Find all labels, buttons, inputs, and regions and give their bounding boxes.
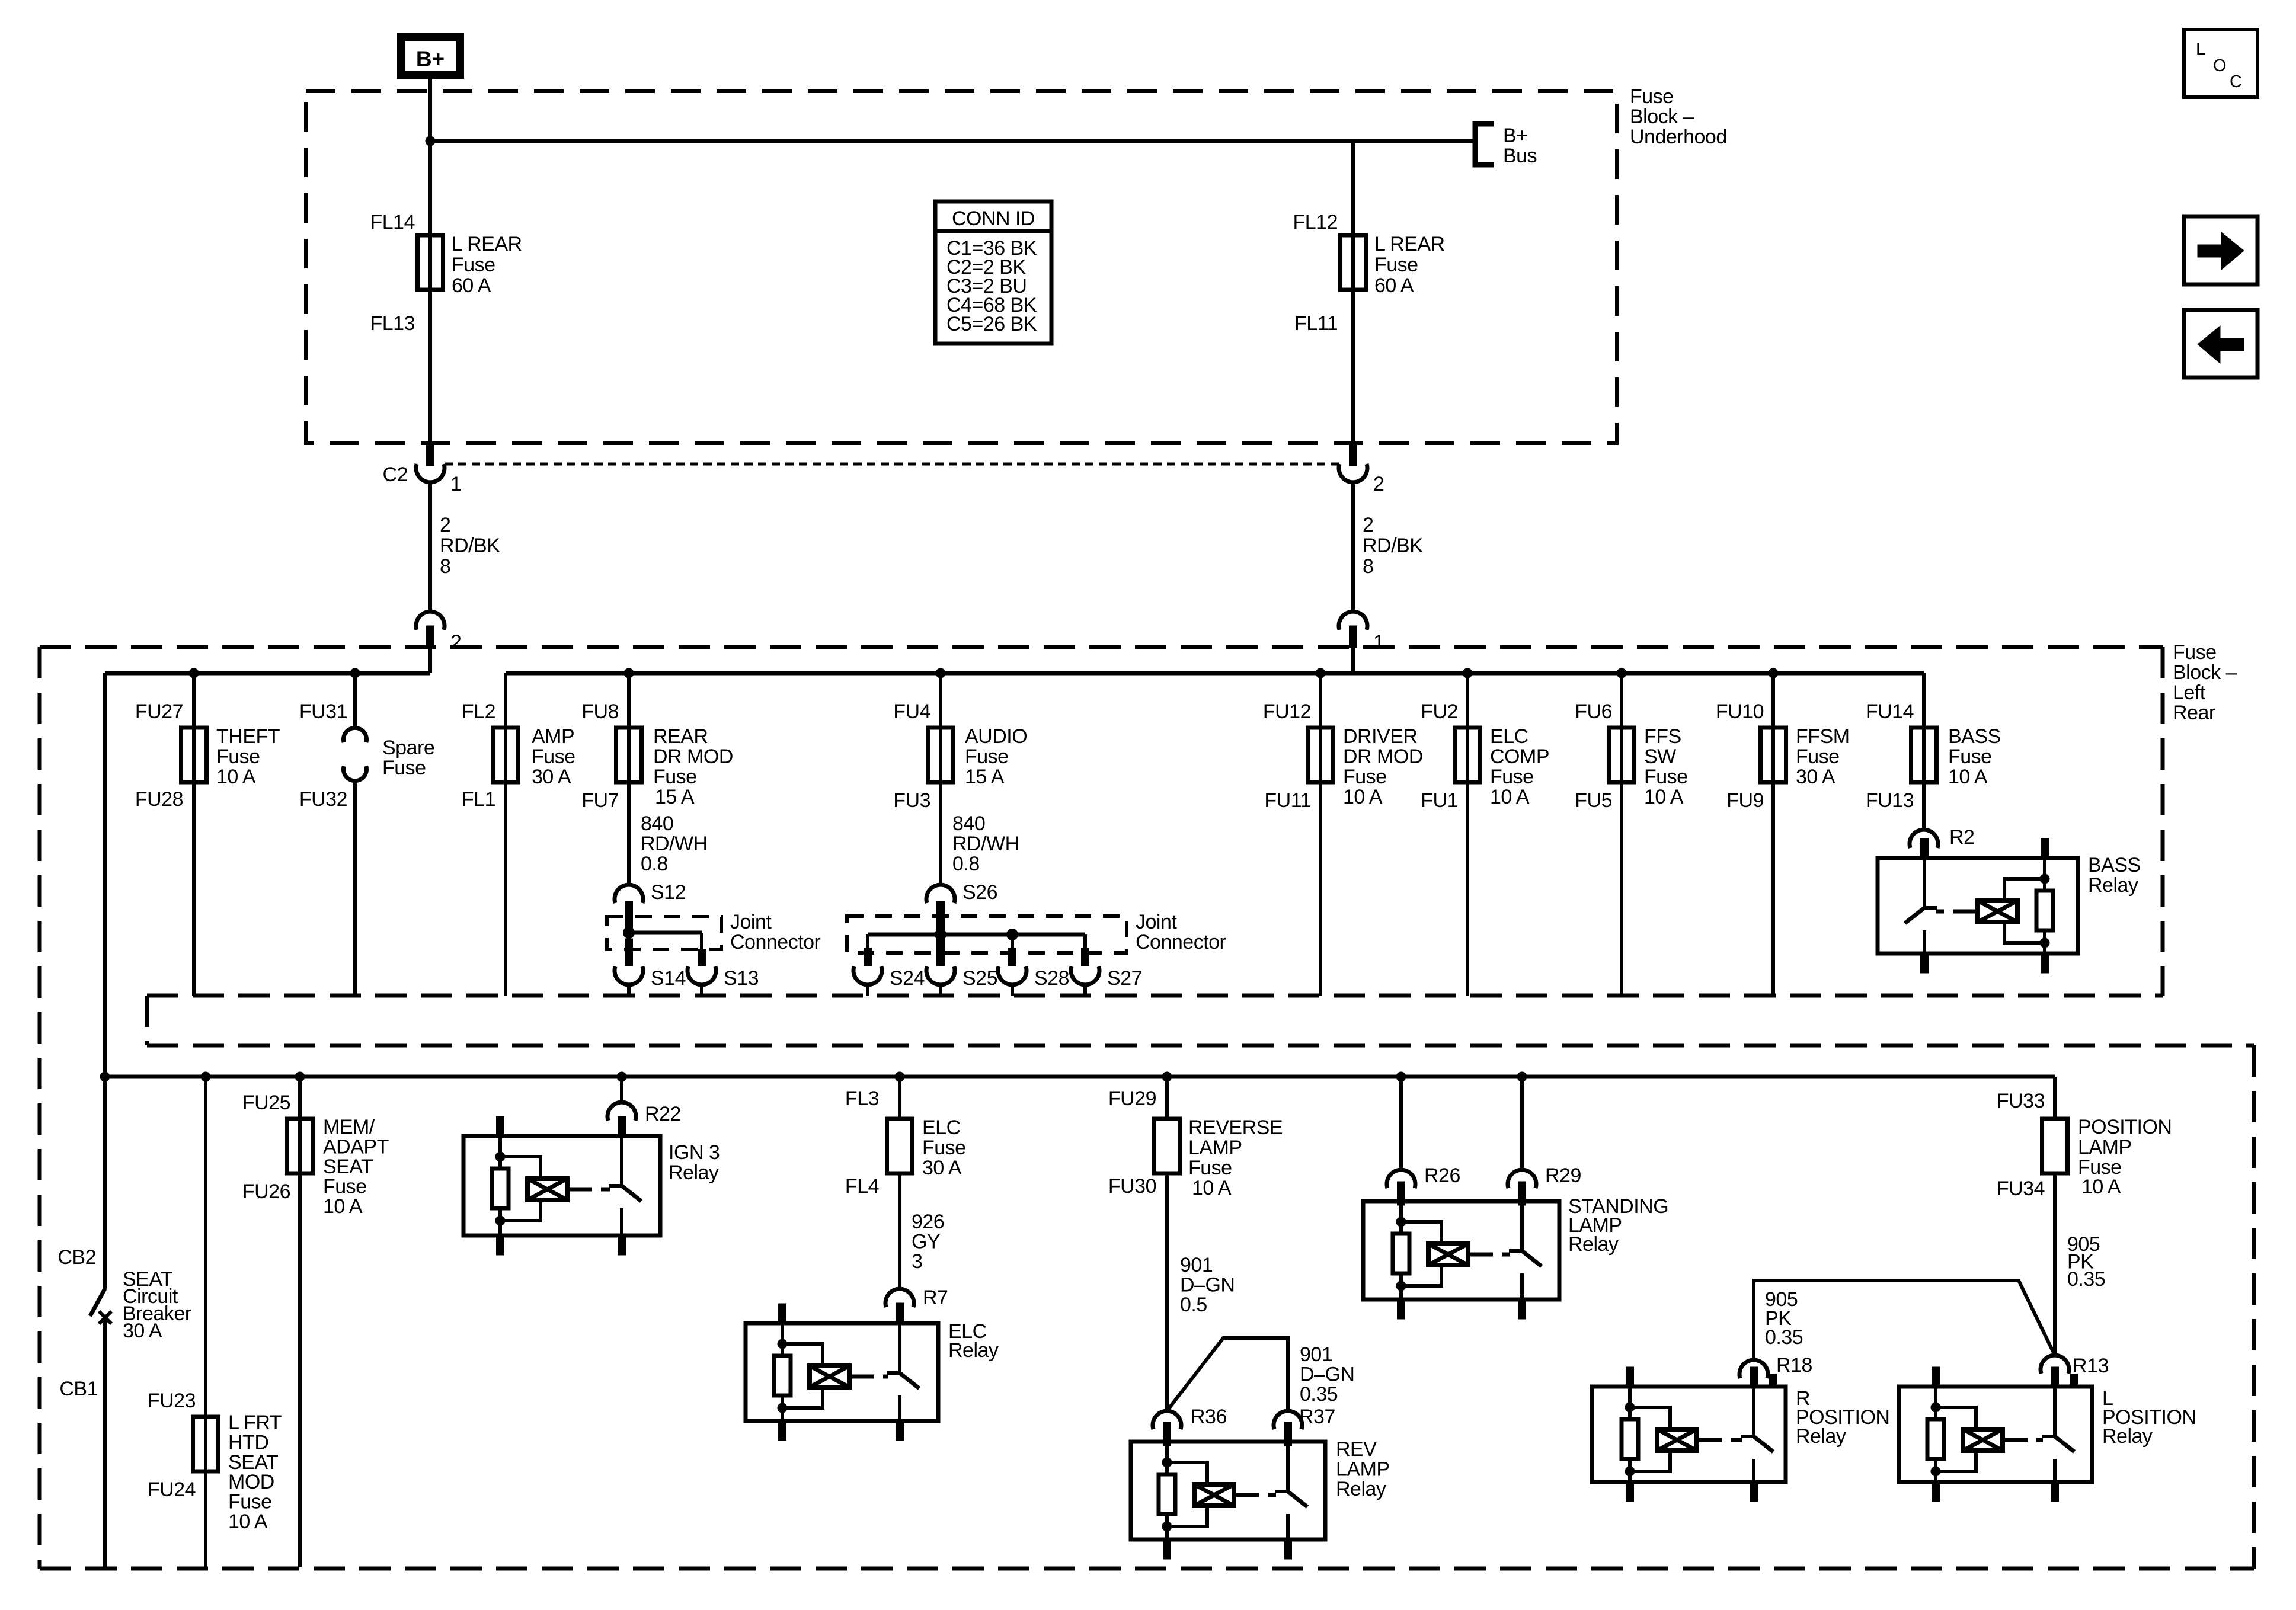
svg-text:15 A: 15 A [655, 786, 695, 808]
left rear block divider lower [147, 1044, 2254, 1048]
connector S28 cup [998, 966, 1027, 985]
svg-text:LAMP: LAMP [2078, 1136, 2132, 1158]
B+ Bus terminal bracket [1475, 124, 1494, 165]
svg-text:Fuse: Fuse [532, 745, 575, 768]
connector C2 pin 1 stub [427, 443, 434, 466]
joint connector box (left) [607, 917, 721, 949]
svg-text:FFS: FFS [1644, 725, 1681, 748]
wire below S14 [627, 984, 631, 996]
circuit breaker contact X [99, 1311, 111, 1324]
relay U-RPOSITION box and internals [1592, 1387, 1786, 1482]
svg-text:FU4: FU4 [893, 700, 930, 723]
relay L POSITION extra pin [2070, 1374, 2078, 1387]
wire FU2 branch [1466, 673, 1469, 996]
svg-text:10 A: 10 A [1644, 786, 1684, 808]
upper bus B [506, 671, 1924, 676]
connector R18 stub [1750, 1374, 1758, 1388]
svg-text:ELC: ELC [1490, 725, 1528, 748]
svg-text:REVERSE: REVERSE [1188, 1116, 1283, 1139]
svg-text:MEM/: MEM/ [323, 1116, 375, 1138]
svg-text:901: 901 [1300, 1343, 1332, 1366]
wire FU30 to R36 [1165, 1173, 1169, 1411]
svg-text:Underhood: Underhood [1630, 126, 1727, 148]
relay R POSITION extra pin [1769, 1374, 1777, 1387]
svg-text:Connector: Connector [1136, 931, 1226, 953]
svg-text:SW: SW [1644, 745, 1676, 768]
connector S24 cup [853, 966, 882, 985]
wire below breaker [103, 1320, 107, 1567]
wire branch diagonal to R37 [1167, 1338, 1288, 1411]
wire FU12 branch [1319, 673, 1322, 996]
fuse FU6/FU5 FFS SW 10A [1609, 728, 1635, 782]
svg-text:CB1: CB1 [59, 1378, 98, 1400]
svg-text:FU34: FU34 [1997, 1177, 2045, 1200]
connector S14 cup [615, 966, 643, 985]
connector boundary dotted line [445, 463, 1339, 466]
svg-text:ADAPT: ADAPT [323, 1136, 389, 1158]
junction dot left feed [100, 1072, 110, 1082]
svg-text:FU13: FU13 [1866, 789, 1914, 812]
svg-text:FU2: FU2 [1421, 700, 1458, 723]
svg-text:1: 1 [1373, 631, 1384, 654]
svg-text:Block –: Block – [2173, 661, 2237, 684]
wire FU10 branch [1771, 673, 1775, 996]
svg-text:FU24: FU24 [148, 1478, 196, 1501]
fuse FL3/FL4 ELC 30A [887, 1119, 913, 1173]
svg-text:L REAR: L REAR [1374, 233, 1445, 255]
svg-text:R26: R26 [1424, 1164, 1460, 1187]
svg-text:R2: R2 [1949, 826, 1974, 849]
connector R22 stub [618, 1116, 626, 1138]
connector pin 1 stub (right) [1350, 626, 1357, 648]
svg-text:Fuse: Fuse [1630, 85, 1674, 108]
svg-text:Fuse: Fuse [382, 757, 426, 779]
svg-text:15 A: 15 A [965, 766, 1005, 788]
svg-text:840: 840 [952, 812, 985, 835]
svg-text:Bus: Bus [1503, 145, 1537, 167]
svg-text:Joint: Joint [1136, 911, 1177, 933]
svg-text:CB2: CB2 [57, 1246, 96, 1269]
left feed wire down [103, 673, 107, 1289]
fuse FU12/FU11 DRIVER DR MOD 10A [1308, 728, 1334, 782]
junction dot at B+ feed [426, 136, 436, 146]
svg-text:901: 901 [1180, 1254, 1213, 1276]
fuse FU8/FU7 REAR DR MOD 15A [616, 728, 642, 782]
left rear block divider upper [147, 994, 2163, 998]
svg-text:10 A: 10 A [1948, 766, 1988, 788]
joint connector drop S28 [1011, 934, 1014, 950]
svg-text:DRIVER: DRIVER [1343, 725, 1417, 748]
svg-text:BASS: BASS [1948, 725, 2001, 748]
svg-text:REAR: REAR [653, 725, 708, 748]
svg-text:Rear: Rear [2173, 702, 2215, 724]
left rear block divider notch [145, 996, 149, 1045]
svg-text:Fuse: Fuse [228, 1491, 272, 1513]
svg-text:10 A: 10 A [228, 1510, 268, 1533]
svg-text:FU29: FU29 [1108, 1087, 1156, 1110]
svg-text:LAMP: LAMP [1336, 1458, 1390, 1481]
wire FU33 corner drop [2053, 1077, 2057, 1119]
svg-text:FU10: FU10 [1716, 700, 1764, 723]
wire branch to R18 [1754, 1281, 2055, 1360]
svg-text:S24: S24 [890, 967, 925, 990]
svg-text:Fuse: Fuse [922, 1137, 966, 1159]
connector pin 2 stub [427, 626, 434, 648]
svg-text:ELC: ELC [922, 1116, 961, 1139]
connector R37 stub [1284, 1425, 1292, 1446]
connector S27 cup [1071, 966, 1099, 985]
svg-text:926: 926 [912, 1211, 944, 1233]
connector R29 stub [1518, 1184, 1526, 1205]
wire FU23 branch [204, 1077, 207, 1567]
CONN ID table box [935, 201, 1051, 344]
svg-text:Fuse: Fuse [1644, 766, 1688, 788]
junction dot R29 [1517, 1072, 1527, 1082]
junction dot S28 branch [1006, 929, 1018, 940]
svg-text:S27: S27 [1107, 967, 1142, 990]
wire FU31 upper [353, 673, 357, 728]
connector R13 stub [2051, 1369, 2059, 1388]
joint connector internal bus (right) [868, 933, 1085, 937]
connector pin 1 dome (right) [1339, 612, 1367, 630]
svg-text:R13: R13 [2073, 1355, 2109, 1377]
wire FU6 branch [1620, 673, 1623, 996]
svg-text:R18: R18 [1776, 1354, 1812, 1377]
fuse FU27/FU28 THEFT 10A [181, 728, 207, 782]
svg-text:Fuse: Fuse [452, 254, 495, 276]
junction dot FU10 [1769, 668, 1779, 678]
svg-text:CONN ID: CONN ID [952, 207, 1035, 230]
wire FL3 branch [898, 1077, 901, 1119]
svg-text:DR MOD: DR MOD [1343, 745, 1423, 768]
joint connector drop S14 stub [625, 939, 633, 966]
joint connector drop S25 stub [937, 939, 945, 966]
wire FU29 branch [1165, 1077, 1169, 1119]
wire FU14 branch [1922, 673, 1926, 830]
svg-text:Spare: Spare [382, 737, 434, 759]
wire into left rear block (right) [1351, 648, 1355, 673]
wire C2-1 to C2-2 [428, 482, 432, 612]
svg-text:R22: R22 [645, 1103, 681, 1125]
svg-text:0.8: 0.8 [952, 853, 980, 875]
junction dot FU8 [624, 668, 634, 678]
svg-text:R7: R7 [923, 1286, 948, 1309]
svg-text:FU25: FU25 [242, 1092, 290, 1114]
Fuse Block - Underhood dashed box [306, 91, 1617, 443]
svg-text:Relay: Relay [1568, 1233, 1619, 1256]
fuse FU29/FU30 REVERSE LAMP 10A [1155, 1119, 1180, 1173]
connector R7 dome [885, 1289, 914, 1307]
joint connector internal bus (left) [629, 931, 702, 935]
fuse FU25/FU26 MEM ADAPT SEAT 10A [287, 1119, 313, 1173]
svg-text:FU9: FU9 [1726, 789, 1764, 812]
svg-text:Fuse: Fuse [1948, 745, 1992, 768]
svg-text:L: L [2196, 40, 2205, 59]
connector C2 pin 2 cup (right) [1339, 464, 1367, 482]
svg-text:HTD: HTD [228, 1431, 268, 1454]
junction dot FU25 [295, 1072, 305, 1082]
svg-text:FU5: FU5 [1575, 789, 1612, 812]
upper bus A [105, 671, 430, 676]
svg-text:FU14: FU14 [1866, 700, 1914, 723]
svg-text:0.35: 0.35 [2067, 1268, 2105, 1291]
relay U-REVLAMP box and internals [1131, 1442, 1325, 1539]
fuse FL12/FL11 L REAR 60A [1341, 235, 1366, 290]
junction dot FU31 [350, 668, 360, 678]
svg-text:FL2: FL2 [462, 700, 495, 723]
svg-text:Fuse: Fuse [1490, 766, 1534, 788]
svg-text:Fuse: Fuse [323, 1176, 367, 1198]
wire FL4 to R7 [898, 1173, 901, 1289]
svg-text:FU26: FU26 [242, 1180, 290, 1203]
svg-text:10 A: 10 A [323, 1195, 363, 1218]
svg-text:FU32: FU32 [299, 788, 347, 811]
connector R2 dome [1910, 830, 1938, 848]
svg-text:COMP: COMP [1490, 745, 1549, 768]
wire FU27 branch [192, 673, 196, 996]
wire FL12 drop from bus [1351, 141, 1355, 443]
svg-text:AMP: AMP [532, 725, 574, 748]
svg-text:Fuse: Fuse [216, 745, 260, 768]
svg-text:10 A: 10 A [1192, 1177, 1232, 1199]
svg-text:10 A: 10 A [1490, 786, 1530, 808]
svg-text:FU7: FU7 [581, 789, 619, 812]
junction dot R22 [617, 1072, 627, 1082]
svg-text:LAMP: LAMP [1188, 1137, 1242, 1159]
connector R22 dome [607, 1102, 636, 1121]
svg-text:Fuse: Fuse [1796, 745, 1840, 768]
connector R2 stub [1920, 844, 1928, 860]
connector S12 dome [615, 885, 643, 903]
svg-text:FU3: FU3 [893, 789, 930, 812]
svg-text:30 A: 30 A [532, 766, 571, 788]
svg-text:D–GN: D–GN [1180, 1274, 1235, 1297]
fuse FL14/FL13 L REAR 60A [418, 235, 443, 290]
joint connector drop S27 [1083, 934, 1087, 950]
svg-text:REV: REV [1336, 1438, 1377, 1461]
arrow box right [2184, 216, 2257, 284]
wire FU25 branch [298, 1077, 302, 1567]
svg-text:D–GN: D–GN [1300, 1363, 1354, 1386]
spare fuse lower clip [343, 766, 366, 781]
lower bus [105, 1075, 2055, 1079]
relay U-ELC box and internals [746, 1323, 938, 1421]
spare fuse upper clip [343, 728, 366, 742]
svg-text:Joint: Joint [730, 911, 772, 933]
connector S13 cup [687, 966, 716, 985]
svg-text:8: 8 [1363, 555, 1373, 578]
svg-text:IGN 3: IGN 3 [669, 1141, 720, 1164]
svg-text:FL1: FL1 [462, 788, 495, 811]
connector pin 2 dome [416, 612, 445, 630]
connector R18 dome [1739, 1360, 1768, 1378]
svg-text:10 A: 10 A [216, 766, 256, 788]
svg-text:S13: S13 [724, 967, 759, 990]
svg-text:Fuse: Fuse [653, 766, 697, 788]
connector C2 pin 2 stub (right) [1350, 443, 1357, 466]
svg-text:O: O [2213, 56, 2227, 75]
B+ bus wire [430, 139, 1475, 143]
svg-text:POSITION: POSITION [2078, 1116, 2172, 1138]
connector R7 stub [896, 1303, 904, 1325]
circuit breaker CB2/CB1 blade [90, 1289, 105, 1316]
svg-text:FU23: FU23 [148, 1390, 196, 1412]
svg-text:2: 2 [450, 631, 461, 654]
svg-text:S14: S14 [651, 967, 686, 990]
svg-text:2: 2 [1373, 473, 1384, 495]
relay U-IGN3 box and internals [463, 1136, 660, 1235]
svg-text:60 A: 60 A [452, 274, 491, 297]
svg-text:Fuse: Fuse [965, 745, 1009, 768]
wire R22 drop [620, 1077, 623, 1102]
svg-text:S12: S12 [651, 881, 686, 904]
junction dot R26 [1396, 1072, 1406, 1082]
fuse FU10/FU9 FFSM 30A [1761, 728, 1786, 782]
svg-text:Block –: Block – [1630, 105, 1694, 128]
svg-text:MOD: MOD [228, 1471, 274, 1493]
svg-text:DR MOD: DR MOD [653, 745, 733, 768]
fuse FU23/FU24 L FRT HTD SEAT MOD 10A [193, 1417, 219, 1471]
junction dot FU2 [1463, 668, 1473, 678]
svg-text:0.35: 0.35 [1765, 1326, 1803, 1349]
svg-text:BASS: BASS [2088, 854, 2141, 876]
svg-text:GY: GY [912, 1231, 940, 1253]
svg-text:B+: B+ [416, 47, 445, 71]
connector R36 dome [1153, 1411, 1181, 1429]
svg-text:C2: C2 [383, 463, 408, 486]
svg-text:10 A: 10 A [1343, 786, 1383, 808]
svg-text:Relay: Relay [2102, 1425, 2153, 1448]
svg-text:0.8: 0.8 [641, 853, 668, 875]
svg-text:FU12: FU12 [1263, 700, 1311, 723]
svg-text:30 A: 30 A [1796, 766, 1835, 788]
svg-text:10 A: 10 A [2081, 1176, 2121, 1198]
svg-text:FU27: FU27 [135, 700, 183, 723]
junction dot FU4 [936, 668, 946, 678]
svg-text:S28: S28 [1034, 967, 1069, 990]
connector S25 cup [926, 966, 955, 985]
junction dot FU29 [1162, 1072, 1172, 1082]
svg-text:Relay: Relay [1336, 1478, 1386, 1500]
joint connector box (right) [847, 916, 1127, 953]
svg-text:2: 2 [1363, 514, 1373, 536]
connector R29 dome [1508, 1170, 1536, 1188]
svg-text:Fuse: Fuse [1343, 766, 1387, 788]
svg-text:Relay: Relay [1796, 1425, 1846, 1448]
svg-text:FU33: FU33 [1997, 1090, 2045, 1112]
connector S26 dome [926, 885, 955, 903]
svg-text:FU30: FU30 [1108, 1175, 1156, 1198]
svg-text:C5=26 BK: C5=26 BK [946, 313, 1037, 335]
svg-text:Left: Left [2173, 681, 2206, 704]
svg-text:Relay: Relay [948, 1339, 999, 1362]
fuse FU33/FU34 POSITION LAMP 10A [2042, 1119, 2068, 1173]
svg-text:840: 840 [641, 812, 673, 835]
svg-text:FU8: FU8 [581, 700, 619, 723]
svg-text:L REAR: L REAR [452, 233, 522, 255]
svg-text:FL4: FL4 [845, 1175, 879, 1198]
svg-text:FL12: FL12 [1293, 211, 1338, 233]
svg-text:C: C [2230, 72, 2242, 91]
svg-text:30 A: 30 A [123, 1320, 162, 1342]
svg-text:B+: B+ [1503, 124, 1528, 147]
svg-text:0.5: 0.5 [1180, 1294, 1207, 1316]
svg-text:Relay: Relay [2088, 874, 2138, 897]
svg-text:AUDIO: AUDIO [965, 725, 1027, 748]
joint connector drop S24 [866, 934, 869, 950]
connector R36 stub [1163, 1425, 1171, 1446]
wire right drop [1351, 482, 1355, 612]
svg-text:FFSM: FFSM [1796, 725, 1850, 748]
svg-text:SEAT: SEAT [323, 1156, 373, 1178]
svg-text:R37: R37 [1299, 1406, 1335, 1428]
wire R26 drop [1399, 1077, 1403, 1170]
svg-text:FU28: FU28 [135, 788, 183, 811]
connector R13 dome [2041, 1355, 2069, 1374]
svg-text:1: 1 [450, 473, 461, 495]
svg-text:FU11: FU11 [1264, 789, 1311, 812]
wire R29 drop [1520, 1077, 1524, 1170]
junction dot FL3 [895, 1072, 905, 1082]
connector S26 stub [937, 901, 945, 934]
joint connector drop S13 [700, 933, 703, 950]
svg-text:Connector: Connector [730, 931, 821, 953]
svg-text:RD/WH: RD/WH [952, 833, 1019, 855]
connector R26 dome [1387, 1170, 1415, 1188]
svg-text:2: 2 [440, 514, 450, 536]
LOC reference box [2184, 30, 2257, 97]
relay U-LPOSITION box and internals [1899, 1387, 2092, 1482]
junction dot in joint connector [623, 927, 635, 939]
svg-text:0.35: 0.35 [1300, 1383, 1338, 1406]
connector R26 stub [1398, 1184, 1405, 1205]
fuse FU14/FU13 BASS 10A [1911, 728, 1937, 782]
svg-text:Relay: Relay [669, 1161, 719, 1184]
Fuse Block - Left Rear dashed outline [40, 645, 2163, 649]
svg-text:FL13: FL13 [370, 312, 415, 335]
junction dot FU27 [189, 668, 199, 678]
svg-text:FU6: FU6 [1575, 700, 1612, 723]
svg-text:RD/WH: RD/WH [641, 833, 708, 855]
fuse FU4/FU3 AUDIO 15A [928, 728, 954, 782]
relay U-BASS box and internals [1878, 858, 2078, 953]
connector R37 dome [1274, 1411, 1302, 1429]
wire FL2 branch [504, 673, 507, 996]
svg-text:S26: S26 [962, 881, 997, 904]
svg-text:FL14: FL14 [370, 211, 415, 233]
svg-text:R36: R36 [1191, 1406, 1227, 1428]
wire FU31 lower [353, 780, 357, 996]
svg-text:FL11: FL11 [1294, 312, 1338, 335]
svg-text:3: 3 [912, 1250, 922, 1273]
wire B+ terminal to C2 connector [428, 79, 432, 443]
svg-text:RD/BK: RD/BK [1363, 534, 1423, 557]
wire into left rear block [428, 648, 432, 673]
arrow glyph left [2198, 326, 2244, 363]
svg-text:FU1: FU1 [1421, 789, 1458, 812]
svg-text:Fuse: Fuse [1374, 254, 1418, 276]
svg-text:8: 8 [440, 555, 450, 578]
svg-text:30 A: 30 A [922, 1157, 962, 1179]
svg-text:SEAT: SEAT [228, 1451, 278, 1474]
junction dot FU23 [201, 1072, 211, 1082]
svg-text:FL3: FL3 [845, 1087, 879, 1110]
svg-text:60 A: 60 A [1374, 274, 1414, 297]
arrow glyph right [2198, 232, 2244, 270]
svg-text:S25: S25 [962, 967, 997, 990]
relay U-STANDING box and internals [1363, 1201, 1559, 1299]
fuse FL2/FL1 AMP 30A [493, 728, 519, 782]
